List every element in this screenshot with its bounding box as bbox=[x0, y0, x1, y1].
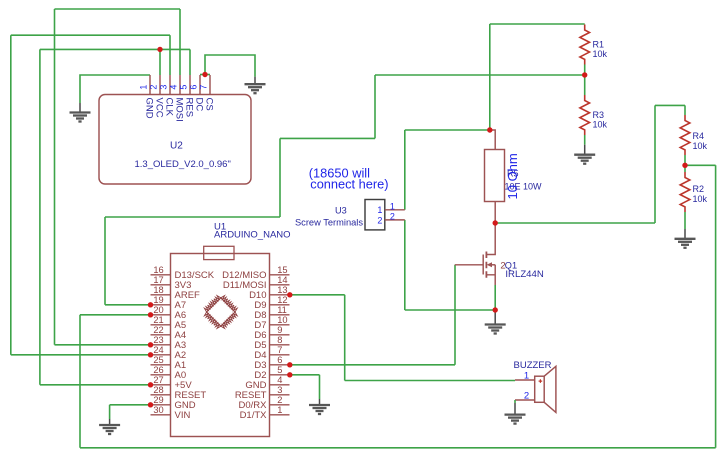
wire R2 bottom lead bbox=[684, 212, 686, 229]
resistor R1 bbox=[580, 25, 590, 65]
svg-text:19: 19 bbox=[153, 295, 163, 305]
power resistor R5 body bbox=[485, 150, 505, 202]
ground for U2 DC CS bbox=[245, 77, 266, 94]
power resistor R5 top pin bbox=[490, 130, 495, 150]
transistor Q1 drain link bbox=[486, 223, 495, 255]
U1 pin 30 VIN bbox=[151, 414, 171, 416]
svg-text:3: 3 bbox=[277, 385, 282, 395]
U1 pin 7 D4 bbox=[270, 354, 290, 356]
wire CLK net left drop bbox=[10, 35, 12, 355]
node VCC junction bbox=[157, 47, 162, 52]
U3 pin 1 bbox=[385, 209, 405, 211]
wire R4 top feed bbox=[655, 104, 685, 106]
node D10 pin bbox=[287, 292, 292, 297]
wire A6 net to R4-R2 junction bbox=[685, 164, 716, 166]
svg-text:1: 1 bbox=[377, 205, 382, 215]
svg-text:7: 7 bbox=[198, 85, 208, 90]
svg-text:ARDUINO_NANO: ARDUINO_NANO bbox=[214, 230, 291, 241]
svg-text:4: 4 bbox=[277, 375, 282, 385]
wire D2 row bbox=[290, 374, 320, 376]
ground below Q1 source bbox=[485, 310, 506, 334]
svg-text:13: 13 bbox=[277, 285, 287, 295]
svg-text:2: 2 bbox=[390, 211, 395, 221]
svg-text:CLK: CLK bbox=[164, 98, 175, 117]
svg-text:4: 4 bbox=[168, 85, 178, 90]
U1 pin 17 3V3 bbox=[151, 284, 171, 286]
wire R4 bottom lead bbox=[684, 155, 686, 165]
U1 pin 26 A0 bbox=[151, 374, 171, 376]
wire R4 top lead bbox=[684, 105, 686, 115]
U1 pin 28 RESET bbox=[151, 394, 171, 396]
wire U2 DC-CS tie bbox=[200, 74, 210, 76]
U2 pin 2 VCC bbox=[159, 75, 161, 95]
ground below R2 bbox=[675, 229, 696, 248]
svg-text:10k: 10k bbox=[693, 141, 708, 151]
svg-text:VCC: VCC bbox=[154, 98, 165, 118]
svg-text:12: 12 bbox=[277, 295, 287, 305]
wire A6 net bottom run bbox=[80, 447, 716, 449]
svg-text:DC: DC bbox=[194, 98, 205, 112]
svg-text:30: 30 bbox=[153, 405, 163, 415]
U2 pin 6 DC bbox=[199, 75, 201, 95]
svg-text:GND: GND bbox=[144, 98, 155, 119]
U1 pin 10 D7 bbox=[270, 324, 290, 326]
wire 5V net left drop bbox=[39, 49, 41, 384]
wire R1 bottom lead bbox=[584, 65, 586, 76]
wire buzzer pin 2 ground stub bbox=[514, 400, 516, 403]
U1 pin 25 A1 bbox=[151, 364, 171, 366]
svg-text:MOSI: MOSI bbox=[174, 98, 185, 122]
svg-text:8: 8 bbox=[277, 335, 282, 345]
U1 pin 14 D11/MOSI bbox=[270, 284, 290, 286]
U1 pin 24 A2 bbox=[151, 354, 171, 356]
svg-text:R2: R2 bbox=[693, 184, 705, 194]
svg-text:17: 17 bbox=[153, 275, 163, 285]
wire CLK net riser to U2 pin 3 bbox=[169, 35, 171, 75]
node A7 pin bbox=[148, 302, 153, 307]
buzzer plus mark bbox=[539, 379, 543, 383]
node D3 pin bbox=[287, 362, 292, 367]
wire MOSI net A3 row bbox=[55, 344, 151, 346]
svg-text:3: 3 bbox=[158, 85, 168, 90]
svg-text:R1: R1 bbox=[593, 40, 605, 50]
wire A7 net shelf 1 bbox=[280, 137, 375, 139]
U1 pin 16 D13/SCK bbox=[151, 274, 171, 276]
ground for D2 bbox=[309, 399, 330, 414]
transistor Q1 source link bbox=[486, 265, 495, 285]
wire gate riser bbox=[454, 265, 456, 365]
svg-text:1: 1 bbox=[277, 405, 282, 415]
svg-text:18: 18 bbox=[153, 285, 163, 295]
wire 5V net +5V row bbox=[40, 384, 151, 386]
wire GND pin 29 row bbox=[110, 404, 151, 406]
svg-text:5: 5 bbox=[178, 85, 188, 90]
svg-text:20: 20 bbox=[153, 305, 163, 315]
svg-text:CS: CS bbox=[204, 98, 215, 111]
svg-text:21: 21 bbox=[153, 315, 163, 325]
svg-text:Screw Terminals: Screw Terminals bbox=[295, 217, 363, 227]
svg-text:10k: 10k bbox=[593, 49, 608, 59]
wire A7 net drop 3 bbox=[104, 217, 106, 305]
wire battery plus top segment bbox=[490, 23, 585, 25]
wire A7 net row to pin A7 bbox=[105, 304, 151, 306]
svg-text:U2: U2 bbox=[170, 140, 183, 151]
svg-text:10 Ohm: 10 Ohm bbox=[505, 153, 520, 199]
node +5V pin bbox=[148, 382, 153, 387]
svg-text:VIN: VIN bbox=[175, 410, 191, 421]
node DC-CS junction bbox=[202, 72, 207, 77]
U2 pin 5 RES bbox=[189, 75, 191, 95]
node drain junction bbox=[493, 220, 498, 225]
svg-text:25: 25 bbox=[153, 355, 163, 365]
svg-text:16: 16 bbox=[153, 265, 163, 275]
svg-text:1: 1 bbox=[390, 201, 395, 211]
node battery plus junction bbox=[487, 127, 492, 132]
transistor Q1 gate bar bbox=[482, 255, 484, 275]
wire MOSI net top segment bbox=[55, 8, 181, 10]
node A3 pin bbox=[148, 342, 153, 347]
U1 pin 22 A4 bbox=[151, 334, 171, 336]
resistor R4 bbox=[680, 115, 690, 155]
wire 5V net riser to U2 pin 2 VCC bbox=[159, 49, 161, 75]
wire U2 DC-CS to ground riser bbox=[205, 55, 255, 77]
U1 pin 8 D5 bbox=[270, 344, 290, 346]
svg-text:RES: RES bbox=[184, 98, 195, 118]
resistor R3 bbox=[580, 95, 590, 135]
svg-text:U3: U3 bbox=[335, 205, 347, 215]
svg-text:14: 14 bbox=[277, 275, 287, 285]
Arduino Nano U1 body bbox=[171, 254, 270, 437]
U1 pin 4 GND bbox=[270, 384, 290, 386]
wire U2 GND pin 1 to ground bbox=[80, 75, 150, 103]
svg-text:6: 6 bbox=[188, 85, 198, 90]
U3 pin 2 bbox=[385, 219, 405, 221]
wire A7 net shelf 2 bbox=[105, 216, 280, 218]
node A6 pin bbox=[148, 312, 153, 317]
wire D3 row to gate riser bbox=[290, 364, 455, 366]
wire battery plus to U3 pin 1 bbox=[405, 130, 490, 210]
svg-text:1: 1 bbox=[524, 370, 529, 381]
svg-text:1.3_OLED_V2.0_0.96": 1.3_OLED_V2.0_0.96" bbox=[135, 159, 231, 170]
U1 pin 18 AREF bbox=[151, 294, 171, 296]
wire A6 net right riser bbox=[715, 165, 717, 448]
wire A6 net left drop bbox=[79, 315, 81, 448]
wire MOSI net left drop bbox=[54, 9, 56, 345]
node GND pin 29 bbox=[148, 402, 153, 407]
wire R2 top lead bbox=[684, 165, 686, 172]
wire R3 bottom lead bbox=[584, 135, 586, 145]
U2 pin 1 GND bbox=[149, 75, 151, 95]
svg-text:1: 1 bbox=[138, 85, 148, 90]
svg-text:2: 2 bbox=[524, 390, 529, 401]
wire drain node row bbox=[495, 222, 655, 224]
wire R1-R3 link bbox=[584, 75, 586, 95]
svg-text:2: 2 bbox=[377, 216, 382, 226]
node A2 pin bbox=[148, 352, 153, 357]
U1 pin 5 D2 bbox=[270, 374, 290, 376]
svg-text:15: 15 bbox=[277, 265, 287, 275]
U1 pin 2 D0/RX bbox=[270, 404, 290, 406]
wire CLK net A2 row bbox=[11, 354, 151, 356]
svg-text:IRLZ44N: IRLZ44N bbox=[505, 269, 543, 280]
wire D2 ground drop bbox=[319, 375, 321, 399]
wire 5V net riser to U2 pin 5 RES bbox=[189, 49, 191, 75]
ground below buzzer bbox=[505, 403, 526, 424]
wire D10 row bbox=[290, 294, 345, 296]
OLED display U2 body bbox=[99, 95, 251, 185]
wire source node row bbox=[405, 309, 495, 311]
wire MOSI net riser to U2 pin 4 bbox=[179, 9, 181, 75]
U1 pin 11 D8 bbox=[270, 314, 290, 316]
U1 chip icon bbox=[204, 296, 237, 329]
wire buzzer feed row bbox=[345, 380, 515, 382]
wire 5V net top segment bbox=[40, 48, 190, 50]
svg-text:28: 28 bbox=[153, 385, 163, 395]
node R4-R2 junction bbox=[682, 163, 687, 168]
wire D10 to buzzer drop bbox=[344, 295, 346, 381]
U1 pin 3 RESET bbox=[270, 394, 290, 396]
resistor R2 bbox=[680, 172, 690, 212]
U1 pin 9 D6 bbox=[270, 334, 290, 336]
svg-text:10k: 10k bbox=[693, 194, 708, 204]
power resistor R5 bottom pin bbox=[494, 202, 496, 224]
ground for U1 pin 29 bbox=[99, 419, 120, 434]
wire A7 net drop 2 bbox=[279, 138, 281, 217]
buzzer cone bbox=[544, 366, 556, 412]
U1 pin 1 D1/TX bbox=[270, 414, 290, 416]
transistor Q1 gate pin bbox=[455, 264, 483, 266]
svg-text:11: 11 bbox=[277, 305, 287, 315]
svg-text:D1/TX: D1/TX bbox=[240, 410, 268, 421]
wire U3 pin 2 drop bbox=[404, 220, 406, 310]
svg-text:connect here): connect here) bbox=[310, 177, 388, 192]
U2 pin 3 CLK bbox=[169, 75, 171, 95]
U1 pin 13 D10 bbox=[270, 294, 290, 296]
svg-text:23: 23 bbox=[153, 335, 163, 345]
svg-text:26: 26 bbox=[153, 365, 163, 375]
buzzer body bbox=[535, 376, 545, 402]
svg-text:22: 22 bbox=[153, 325, 163, 335]
svg-text:24: 24 bbox=[153, 345, 163, 355]
U1 pin 29 GND bbox=[151, 404, 171, 406]
buzzer LS1 pin 2 bbox=[515, 399, 535, 401]
U1 pin 6 D3 bbox=[270, 364, 290, 366]
node source junction bbox=[493, 307, 498, 312]
wire Q1 source lead bbox=[494, 285, 496, 310]
svg-text:10: 10 bbox=[277, 315, 287, 325]
U1 pin 19 A7 bbox=[151, 304, 171, 306]
buzzer LS1 pin 1 bbox=[515, 379, 535, 381]
wire GND pin 29 drop bbox=[109, 405, 111, 419]
svg-text:9: 9 bbox=[277, 325, 282, 335]
wire A7 net drop 1 bbox=[374, 75, 376, 138]
wire battery plus drop to R5 node bbox=[489, 24, 491, 130]
transistor Q1 channel segments bbox=[485, 252, 487, 278]
wire A7 divider row to R1-R3 junction bbox=[375, 74, 585, 76]
svg-text:R4: R4 bbox=[693, 131, 705, 141]
wire drain node riser bbox=[654, 105, 656, 223]
ground for U2 pin 1 bbox=[70, 103, 91, 122]
node D2 pin bbox=[287, 372, 292, 377]
screw terminal U3 body bbox=[365, 200, 385, 230]
svg-text:10k: 10k bbox=[593, 119, 608, 129]
U1 pin 15 D12/MISO bbox=[270, 274, 290, 276]
svg-text:6: 6 bbox=[277, 355, 282, 365]
U1 pin 27 +5V bbox=[151, 384, 171, 386]
wire CLK net top segment bbox=[11, 34, 170, 36]
svg-text:27: 27 bbox=[153, 375, 163, 385]
svg-text:7: 7 bbox=[277, 345, 282, 355]
U1 pin 23 A3 bbox=[151, 344, 171, 346]
wire A6 net row bbox=[80, 314, 151, 316]
svg-text:R3: R3 bbox=[593, 110, 605, 120]
U1 top notch bbox=[204, 246, 234, 259]
svg-text:2: 2 bbox=[148, 85, 158, 90]
transistor Q1 body diode arrow bbox=[487, 262, 496, 267]
svg-text:5: 5 bbox=[277, 365, 282, 375]
U1 pin 20 A6 bbox=[151, 314, 171, 316]
node R1-R3 junction bbox=[582, 72, 587, 77]
U2 pin 4 MOSI bbox=[179, 75, 181, 95]
svg-text:2: 2 bbox=[277, 395, 282, 405]
svg-text:BUZZER: BUZZER bbox=[514, 360, 552, 371]
U1 pin 12 D9 bbox=[270, 304, 290, 306]
ground below R3 bbox=[574, 145, 595, 164]
U1 pin 21 A5 bbox=[151, 324, 171, 326]
svg-text:29: 29 bbox=[153, 395, 163, 405]
U2 pin 7 CS bbox=[209, 75, 211, 95]
